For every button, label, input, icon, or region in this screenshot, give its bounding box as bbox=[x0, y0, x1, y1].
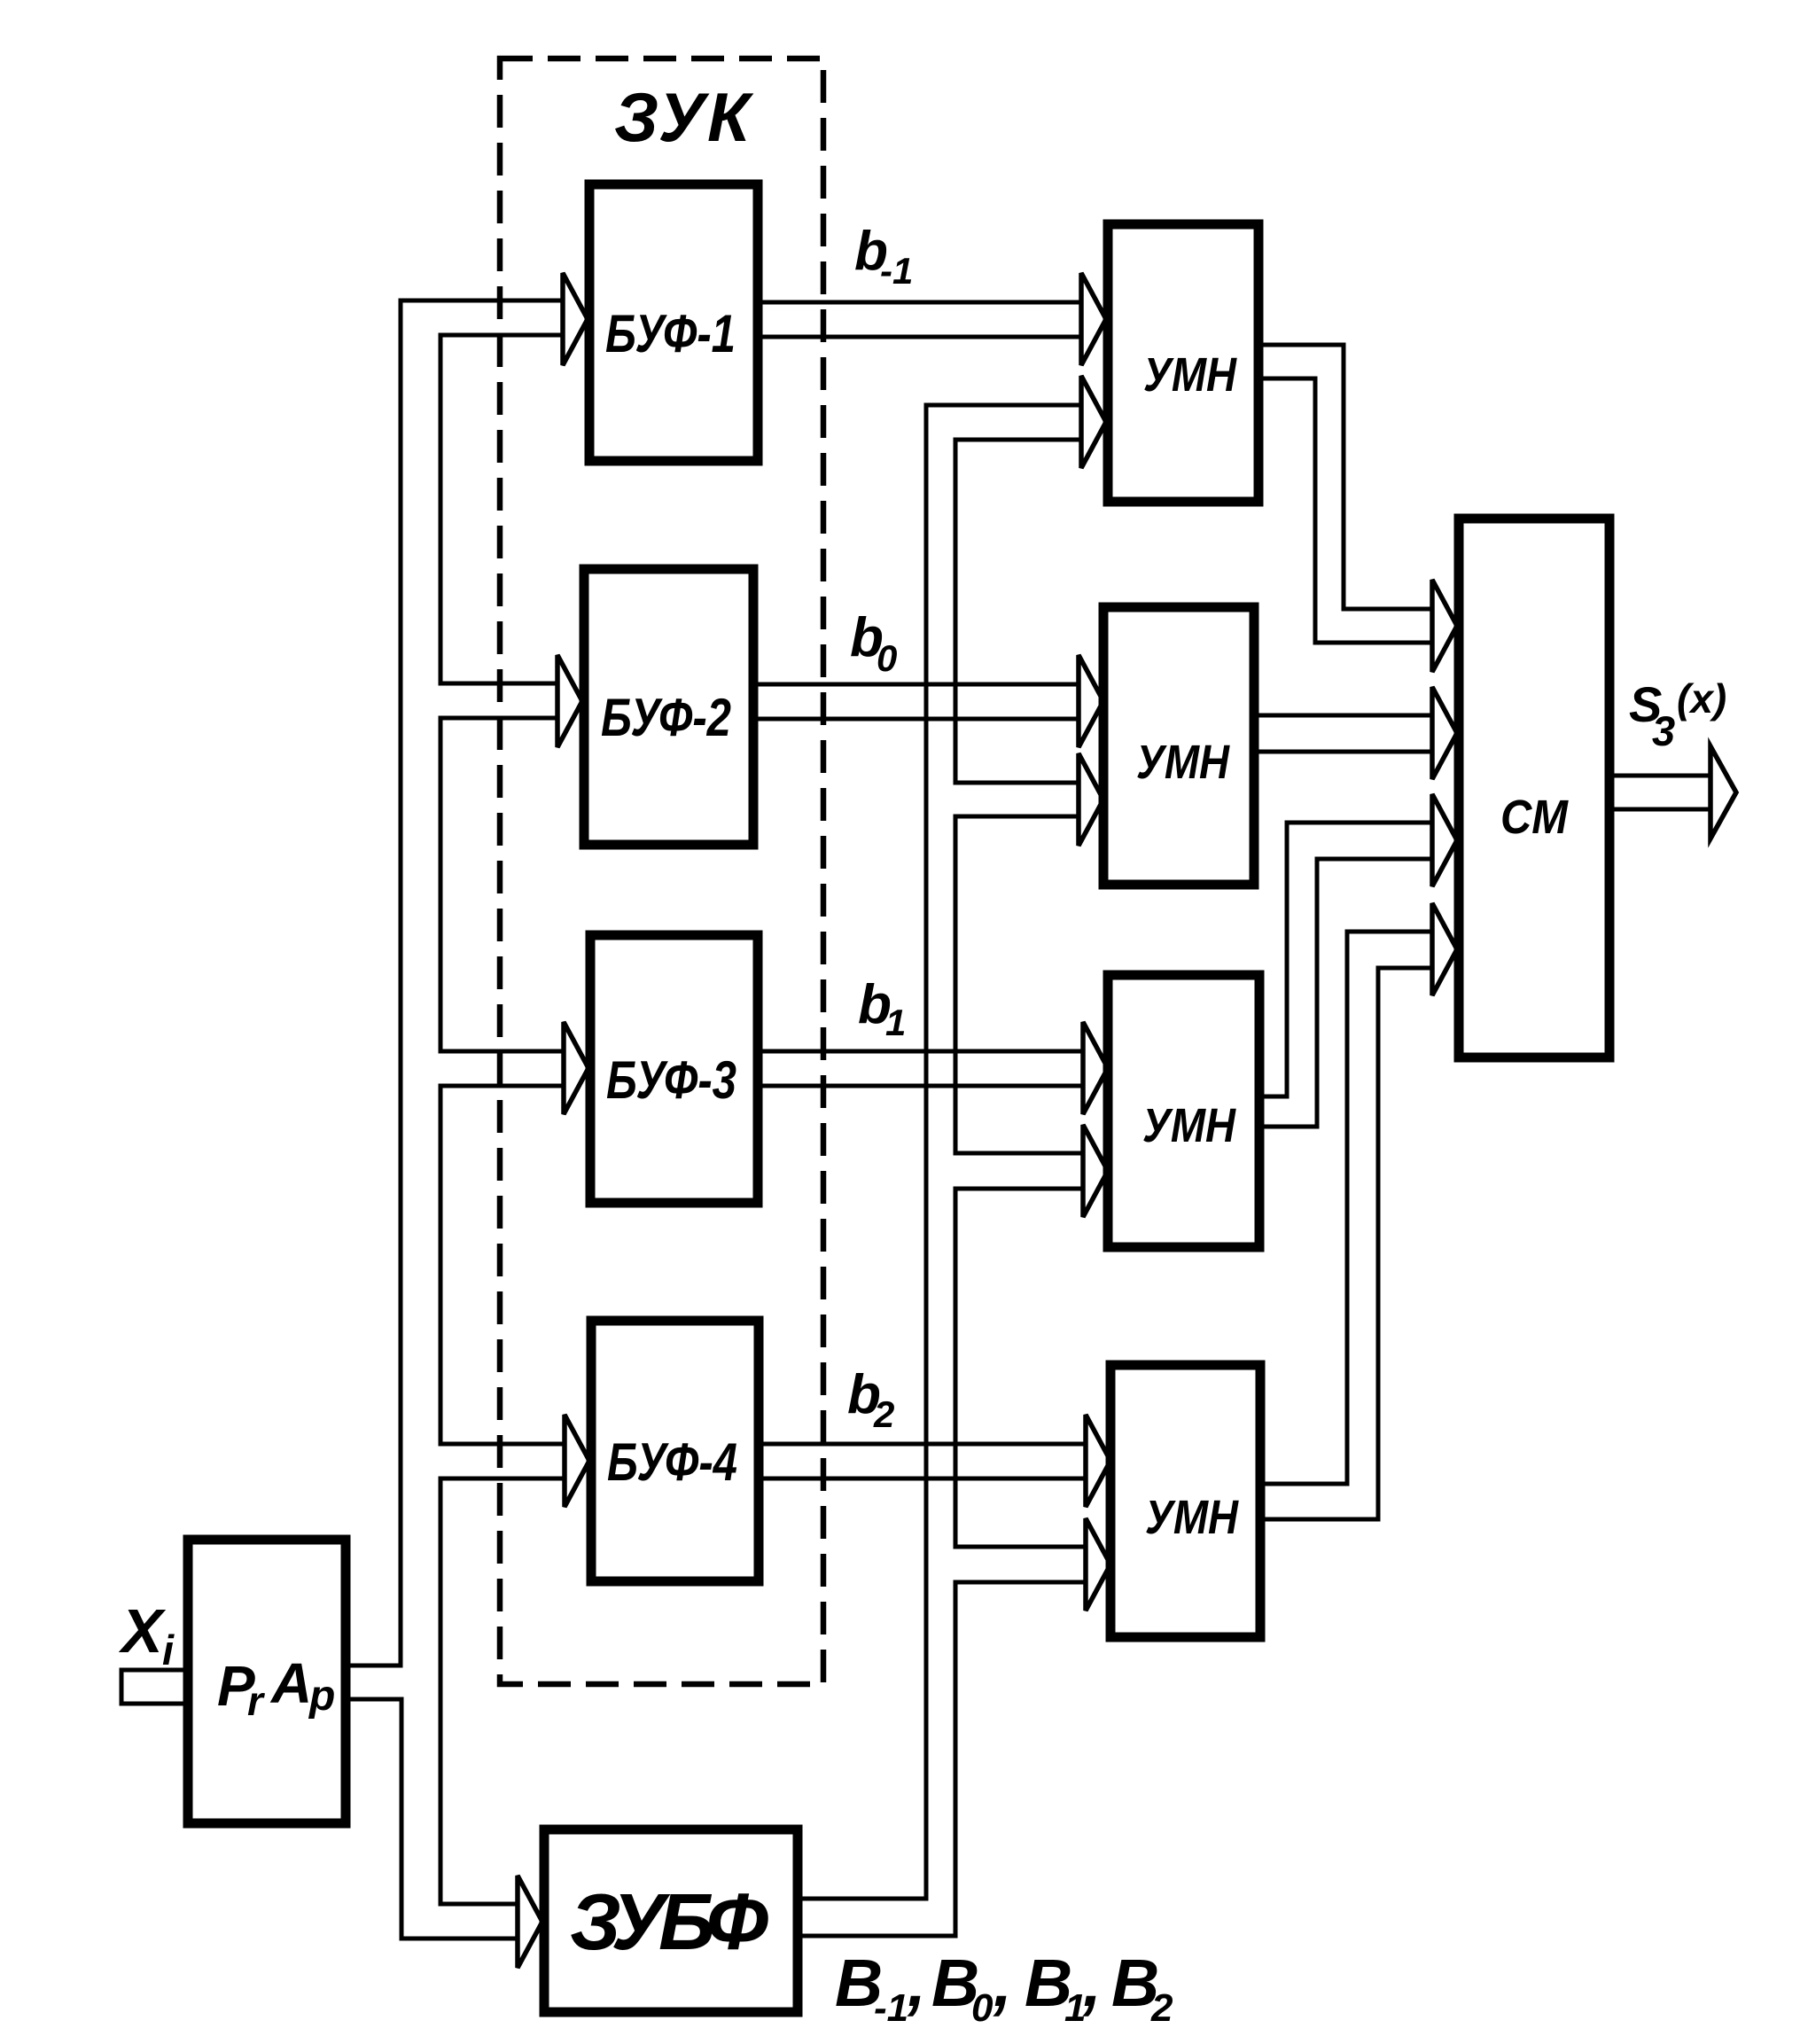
svg-text:БУФ-1: БУФ-1 bbox=[605, 304, 736, 363]
svg-text:ЗУК: ЗУК bbox=[614, 78, 754, 156]
wire BUF-2 input 2 chain to BUF-3 input 1 bbox=[440, 718, 567, 1051]
wire b-1 line 2 bbox=[758, 335, 1081, 339]
arrow1 into UMN-4 bbox=[1086, 1415, 1110, 1507]
arrow3 into CM bbox=[1432, 794, 1457, 886]
svg-text:,: , bbox=[907, 1946, 926, 2020]
block UMN-3 bbox=[1108, 975, 1259, 1247]
wire bus B to UMN-1 arrow2 line1 bbox=[798, 405, 1081, 1899]
arrow1 into UMN-3 bbox=[1083, 1022, 1108, 1114]
svg-text:,: , bbox=[993, 1946, 1012, 2020]
wire b-1 line 1 bbox=[758, 300, 1081, 305]
svg-text:УМН: УМН bbox=[1142, 1099, 1236, 1152]
svg-text:,: , bbox=[1082, 1946, 1102, 2020]
arrow into BUF-2 bbox=[557, 655, 582, 747]
arrow4 into CM bbox=[1432, 903, 1457, 995]
svg-text:(x): (x) bbox=[1677, 675, 1726, 722]
svg-text:2: 2 bbox=[873, 1393, 894, 1435]
block BUF-1 bbox=[589, 184, 758, 461]
wire b0 line 1 bbox=[753, 683, 1079, 687]
block BUF-2 bbox=[584, 569, 753, 845]
wire UMN-3 out1 to CM arrow3 line1 bbox=[1259, 823, 1432, 1096]
svg-text:ЗУБФ: ЗУБФ bbox=[570, 1878, 768, 1967]
wire chain UMN-3 arrow2 line2 to UMN-4 arrow2 line1 bbox=[955, 1189, 1086, 1547]
wire BUF-3 input 2 chain to BUF-4 input 1 bbox=[440, 1086, 568, 1444]
svg-text:СМ: СМ bbox=[1500, 791, 1569, 844]
svg-text:0: 0 bbox=[971, 1986, 994, 2030]
svg-text:БУФ-2: БУФ-2 bbox=[601, 688, 731, 747]
block CM bbox=[1459, 519, 1609, 1057]
wire UMN-1 out2 to CM arrow1 line2 bbox=[1258, 378, 1432, 643]
block ZUBF bbox=[544, 1829, 798, 2012]
wire CM output line 1 bbox=[1609, 774, 1711, 778]
wire UMN-2 out2 to CM arrow2 line2 bbox=[1254, 750, 1432, 754]
wire BUF-4 input 2 chain to ZUBF input 1 bbox=[440, 1478, 568, 1904]
block UMN-4 bbox=[1110, 1365, 1260, 1637]
svg-text:БУФ-3: БУФ-3 bbox=[606, 1050, 736, 1110]
arrow1 into UMN-1 bbox=[1081, 273, 1106, 365]
svg-text:A: A bbox=[269, 1651, 312, 1715]
arrow into ZUBF bbox=[518, 1876, 542, 1968]
output arrow S3(x) bbox=[1710, 746, 1736, 839]
wire b1 line 1 bbox=[758, 1049, 1083, 1054]
wire UMN-1 out1 to CM arrow1 line1 bbox=[1258, 345, 1432, 609]
arrow into BUF-1 bbox=[563, 273, 588, 365]
wire b1 line 2 bbox=[758, 1084, 1083, 1088]
svg-text:-1: -1 bbox=[880, 250, 913, 292]
wire chain UMN-1 arrow2 line2 to UMN-2 arrow2 line1 bbox=[955, 440, 1081, 783]
svg-text:X: X bbox=[118, 1596, 167, 1666]
block UMN-2 bbox=[1103, 607, 1254, 885]
wire b0 line 2 bbox=[753, 717, 1079, 722]
block BUF-4 bbox=[591, 1321, 759, 1581]
input stub Xi bbox=[121, 1670, 188, 1704]
svg-text:-1: -1 bbox=[874, 1986, 908, 2030]
arrow2 into UMN-1 bbox=[1081, 376, 1106, 468]
arrow2 into UMN-2 bbox=[1079, 753, 1103, 846]
svg-text:i: i bbox=[162, 1627, 175, 1673]
svg-text:1: 1 bbox=[885, 1002, 906, 1043]
arrow1 into UMN-2 bbox=[1079, 655, 1103, 747]
wire chain UMN-2 arrow2 line2 to UMN-3 arrow2 line1 bbox=[955, 816, 1083, 1153]
svg-text:p: p bbox=[308, 1673, 335, 1720]
wire BUF-1 input 2 chain to BUF-2 input 1 bbox=[440, 335, 565, 683]
wire UMN-4 out1 to CM arrow4 line1 bbox=[1260, 932, 1432, 1484]
svg-text:УМН: УМН bbox=[1145, 1491, 1239, 1544]
wire PrAp out2 to ZUBF input 2 bbox=[346, 1699, 521, 1939]
wire UMN-2 out1 to CM arrow2 line1 bbox=[1254, 714, 1432, 718]
arrow into BUF-3 bbox=[564, 1022, 588, 1114]
block PrAp bbox=[188, 1540, 346, 1823]
wire CM output line 2 bbox=[1609, 807, 1711, 812]
wire UMN-4 out2 to CM arrow4 line2 bbox=[1260, 968, 1432, 1519]
svg-text:УМН: УМН bbox=[1143, 348, 1237, 402]
block UMN-1 bbox=[1108, 224, 1258, 502]
arrow1 into CM bbox=[1432, 580, 1457, 672]
svg-text:2: 2 bbox=[1150, 1986, 1173, 2030]
svg-text:УМН: УМН bbox=[1136, 736, 1230, 789]
wire b2 line 2 bbox=[759, 1477, 1086, 1481]
arrow2 into UMN-4 bbox=[1086, 1518, 1110, 1611]
wire b2 line 1 bbox=[759, 1442, 1086, 1447]
svg-text:0: 0 bbox=[877, 637, 897, 679]
arrow2 into UMN-3 bbox=[1083, 1125, 1108, 1217]
arrow2 into CM bbox=[1432, 687, 1457, 779]
arrow into BUF-4 bbox=[565, 1415, 589, 1507]
wire PrAp out1 to BUF-1 input 1 bbox=[346, 300, 565, 1666]
block BUF-3 bbox=[590, 935, 758, 1203]
wire chain UMN-4 arrow2 line2 to ZUBF output 2 bbox=[798, 1582, 1086, 1936]
svg-text:БУФ-4: БУФ-4 bbox=[607, 1432, 737, 1492]
dashed frame ZUK bbox=[500, 59, 823, 1684]
svg-text:r: r bbox=[247, 1678, 265, 1724]
wire UMN-3 out2 to CM arrow3 line2 bbox=[1259, 859, 1432, 1127]
svg-text:3: 3 bbox=[1652, 707, 1675, 754]
